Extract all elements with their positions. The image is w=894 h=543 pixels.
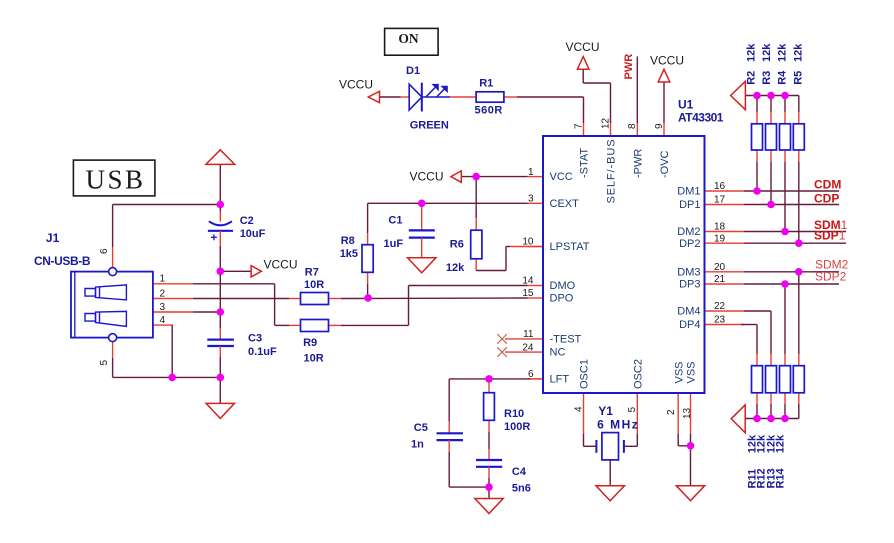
svg-text:10: 10 [522, 237, 534, 248]
svg-text:-OVC: -OVC [659, 150, 671, 178]
svg-text:R7: R7 [305, 267, 319, 279]
svg-text:OSC1: OSC1 [579, 359, 591, 389]
svg-text:R9: R9 [303, 337, 317, 349]
svg-text:-STAT: -STAT [579, 148, 591, 178]
svg-text:12k: 12k [446, 262, 465, 274]
svg-text:11: 11 [523, 329, 534, 340]
svg-text:C3: C3 [248, 333, 262, 345]
svg-text:R5: R5 [793, 71, 805, 85]
svg-text:10uF: 10uF [240, 228, 266, 240]
svg-text:2: 2 [160, 288, 166, 299]
svg-text:ON: ON [398, 31, 419, 46]
svg-text:4: 4 [160, 315, 166, 326]
svg-text:D1: D1 [406, 65, 420, 77]
svg-text:24: 24 [522, 342, 534, 353]
svg-text:R14: R14 [774, 467, 786, 488]
svg-text:1n: 1n [411, 439, 424, 451]
svg-text:15: 15 [522, 288, 534, 299]
svg-text:10R: 10R [304, 353, 324, 365]
svg-text:1uF: 1uF [384, 238, 404, 250]
svg-text:R3: R3 [761, 71, 773, 85]
svg-text:3: 3 [528, 194, 534, 205]
svg-text:DP2: DP2 [679, 238, 700, 250]
svg-text:6 MHz: 6 MHz [597, 418, 639, 432]
svg-text:5: 5 [99, 360, 110, 366]
svg-text:C1: C1 [388, 214, 402, 226]
svg-text:VCCU: VCCU [339, 78, 373, 92]
svg-text:7: 7 [573, 123, 584, 129]
svg-text:12k: 12k [774, 434, 786, 453]
svg-text:3: 3 [160, 302, 166, 313]
svg-text:SDP1: SDP1 [814, 229, 846, 243]
svg-text:2: 2 [666, 409, 677, 415]
svg-text:12k: 12k [746, 43, 758, 62]
svg-text:1: 1 [160, 274, 166, 285]
svg-text:12: 12 [600, 117, 611, 129]
svg-text:-TEST: -TEST [550, 334, 582, 346]
svg-text:22: 22 [714, 301, 726, 312]
svg-text:LPSTAT: LPSTAT [550, 241, 590, 253]
svg-text:12k: 12k [761, 43, 773, 62]
svg-text:100R: 100R [504, 421, 530, 433]
svg-text:PWR: PWR [623, 54, 635, 80]
svg-text:DM3: DM3 [677, 266, 700, 278]
svg-text:DPO: DPO [550, 293, 574, 305]
svg-text:DP3: DP3 [679, 279, 700, 291]
svg-text:USB: USB [85, 165, 145, 195]
svg-text:VSS: VSS [686, 361, 698, 383]
svg-text:5n6: 5n6 [512, 483, 531, 495]
svg-text:8: 8 [627, 123, 638, 129]
svg-text:R10: R10 [504, 408, 524, 420]
svg-text:13: 13 [682, 407, 693, 419]
svg-text:21: 21 [714, 274, 726, 285]
svg-text:C2: C2 [240, 215, 254, 227]
svg-text:18: 18 [714, 222, 726, 233]
svg-text:4: 4 [573, 406, 584, 412]
svg-text:12k: 12k [777, 43, 789, 62]
svg-text:6: 6 [99, 248, 110, 254]
svg-text:SELF/-BUS: SELF/-BUS [606, 139, 618, 204]
svg-text:5: 5 [627, 407, 638, 413]
svg-text:14: 14 [522, 276, 534, 287]
svg-text:10R: 10R [304, 279, 324, 291]
svg-text:1: 1 [528, 167, 534, 178]
svg-text:LFT: LFT [550, 374, 570, 386]
svg-text:Y1: Y1 [598, 404, 613, 418]
svg-text:J1: J1 [46, 231, 60, 245]
svg-text:NC: NC [550, 347, 566, 359]
svg-text:DMO: DMO [550, 280, 576, 292]
svg-text:6: 6 [528, 369, 534, 380]
svg-text:0.1uF: 0.1uF [248, 346, 277, 358]
svg-text:DM1: DM1 [677, 186, 700, 198]
svg-text:VCCU: VCCU [264, 258, 298, 272]
svg-text:VCC: VCC [550, 171, 573, 183]
svg-text:16: 16 [714, 181, 726, 192]
svg-text:20: 20 [714, 262, 726, 273]
svg-text:SDP2: SDP2 [815, 270, 847, 284]
svg-text:VCCU: VCCU [650, 54, 684, 68]
svg-text:R8: R8 [341, 235, 355, 247]
svg-text:19: 19 [714, 233, 726, 244]
svg-text:GREEN: GREEN [410, 119, 449, 131]
svg-text:VSS: VSS [673, 361, 685, 383]
svg-text:R1: R1 [479, 78, 493, 90]
svg-text:CEXT: CEXT [550, 198, 580, 210]
svg-text:CN-USB-B: CN-USB-B [34, 254, 91, 268]
svg-text:560R: 560R [475, 105, 503, 117]
svg-text:CDP: CDP [814, 192, 839, 206]
svg-text:U1: U1 [678, 98, 694, 112]
svg-text:DP4: DP4 [679, 319, 700, 331]
svg-text:DM4: DM4 [677, 306, 700, 318]
svg-text:23: 23 [714, 315, 726, 326]
svg-text:R2: R2 [746, 71, 758, 85]
svg-text:OSC2: OSC2 [633, 359, 645, 389]
svg-text:17: 17 [714, 195, 726, 206]
svg-text:-PWR: -PWR [633, 149, 645, 178]
svg-text:VCCU: VCCU [410, 170, 444, 184]
svg-text:DP1: DP1 [679, 199, 700, 211]
svg-text:R4: R4 [777, 70, 789, 85]
svg-text:CDM: CDM [814, 177, 841, 191]
svg-text:12k: 12k [793, 43, 805, 62]
svg-text:C5: C5 [414, 422, 428, 434]
svg-text:VCCU: VCCU [566, 40, 600, 54]
svg-text:DM2: DM2 [677, 226, 700, 238]
svg-text:C4: C4 [512, 466, 527, 478]
svg-text:R6: R6 [450, 238, 464, 250]
svg-text:AT43301: AT43301 [678, 111, 724, 125]
svg-text:9: 9 [654, 123, 665, 129]
svg-text:1k5: 1k5 [340, 248, 358, 260]
